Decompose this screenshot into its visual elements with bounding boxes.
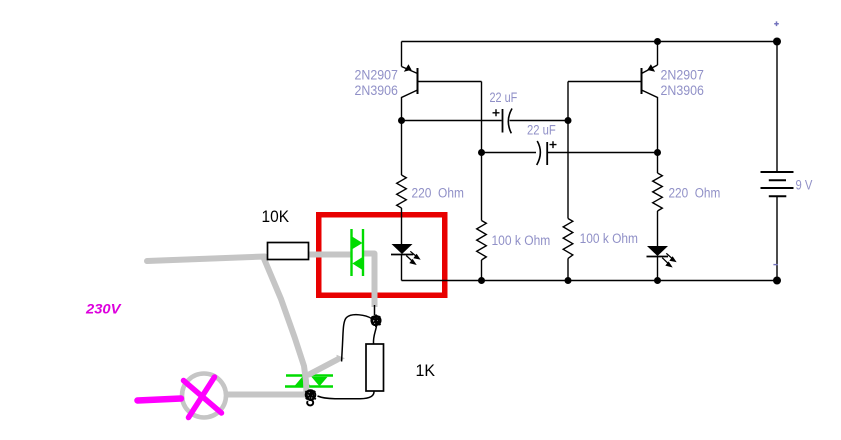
junction knot (hand-drawn) at triac gate [305,390,316,406]
wire: 10K resistor to opto diac (thick grey) [290,252,351,258]
svg-text:220 Ohm: 220 Ohm [669,186,721,201]
transistor Q2 base bar [641,68,643,94]
wire: R3 to bottom rail [481,260,483,281]
opto diac D1 right bar (green) [362,229,364,276]
svg-text:230V: 230V [85,301,122,317]
capacitor C1 plate (curved) [508,109,512,134]
LED1 light arrows [406,251,419,264]
wire: Q1 emitter drop from rail [401,42,403,67]
node: battery -/bottom rail corner [773,277,781,285]
capacitor C2 plate (straight) [546,142,548,165]
wire: C2 left to Q1 base node [482,152,537,154]
opto diac D1 upper triangle (green) [353,237,363,249]
wire: +9V top rail [402,41,778,43]
wire: C1 left plate to Q1 collector node [402,120,502,122]
svg-text:22 uF: 22 uF [490,90,518,105]
svg-text:9 V: 9 V [796,178,813,193]
resistor 1K body (box) [366,344,384,391]
node: Q1 collector junction [398,117,405,124]
node: R4/bottom rail [565,277,572,284]
wire: battery - to bottom rail [776,197,778,281]
wire: grey stub to junction knot (thin black) [374,305,376,315]
triac T1 bottom bar (green) [285,385,333,387]
transistor Q2 emitter [642,65,658,74]
wire: 1K bottom to gate knot (thin black) [318,391,375,399]
capacitor C1 plate (straight) [502,109,504,133]
wire: node down to R3 [481,153,483,221]
svg-text:2N3906: 2N3906 [355,83,398,98]
node: Q2 collector junction [654,149,661,156]
wire: diac out down to gate network (thick grey) [364,254,375,308]
lamp L1 filament X (magenta) [184,377,222,418]
opto diac D1 lower triangle (green) [352,257,362,269]
node: rail/battery + corner [773,38,781,46]
wire: R2 to LED2 [657,211,659,247]
battery BT1 plate long top [761,171,794,173]
opto diac D1 left bar (green) [350,229,352,276]
triac T1 left triangle (green) [295,377,311,387]
node: C1/Q2-base junction [565,117,572,124]
resistor R1 220 Ohm zigzag [397,175,407,208]
wire: R4 to bottom rail [567,259,569,281]
LED1 cathode bar [391,254,413,256]
wire: knot left curving down to triac MT2 (thin black) [342,315,372,362]
wire: C2 right plate to Q2 collector [547,152,657,154]
capacitor C2 plate (curved) [537,141,541,165]
transistor Q1 base bar [417,68,419,94]
transistor Q2 collector [642,90,658,153]
resistor R2 220 Ohm zigzag [653,173,663,211]
svg-text:22 uF: 22 uF [527,123,556,138]
wire: Q2 base vertical line [567,82,569,219]
label: battery + polarity [774,21,779,26]
transistor Q1 collector [402,90,418,121]
battery BT1 plate short bottom [769,195,787,197]
wire: right vertical to battery + [776,42,778,172]
triac T1 top bar (green) [286,374,333,376]
node: rail/Q2 emitter junction [654,38,661,45]
wire: 230V live (thick magenta) [138,399,182,401]
wire: LED2 cathode to bottom rail [657,257,659,281]
capacitor C2 plus sign [550,141,557,148]
wire: Q1 base line down to C2/R3 [481,82,483,153]
svg-text:2N2907: 2N2907 [355,68,398,83]
node: Q1-base/C2 junction [478,149,485,156]
svg-text:2N3906: 2N3906 [661,83,704,98]
wire: Q2 emitter drop from rail [657,42,659,66]
lamp L1 (grey circle) [182,374,226,418]
wire: Q1 base to cross-coupling [418,81,482,83]
node: LED2/bottom rail [654,277,661,284]
wire: knot to 1K resistor top (thin black) [373,326,376,344]
triac T1 right triangle (green) [312,377,328,386]
LED1 (left) triangle [392,244,413,254]
node: R3/bottom rail [478,277,485,284]
wire: R1 to LED1 [401,208,403,245]
transistor Q1 emitter [402,67,418,74]
svg-text:2N2907: 2N2907 [661,68,704,83]
svg-text:220 Ohm: 220 Ohm [412,185,464,200]
junction knot (hand-drawn) near diac output [371,315,381,328]
wire: lamp to triac (thick grey) [228,392,308,398]
svg-text:100 k Ohm: 100 k Ohm [492,233,551,248]
resistor 10K body (box) [268,243,309,260]
battery BT1 plate long [761,187,794,189]
transistor Q1 emitter arrow (PNP) [404,64,412,72]
svg-text:100 k Ohm: 100 k Ohm [580,231,638,246]
wire: diagonal from 10K node down through triac to gate knot (thick grey) [264,258,307,395]
wire: pointed end of MT2 stub (grey) [337,355,346,363]
wire: 230V feed (thick grey) to 10K resistor [147,257,265,262]
wire: LED1 cathode to bottom rail [401,255,403,281]
label: battery - polarity [773,264,777,266]
resistor R4 100 k Ohm zigzag [563,219,573,259]
LED2 light arrows [662,253,675,266]
LED2 cathode bar [647,256,669,258]
wire: Q2 base to cross-coupling [568,81,642,83]
resistor R3 100 k Ohm zigzag [477,221,487,261]
highlight box (red) around optocoupler region [319,215,445,296]
wire: Q1 collector node down to R1 [401,121,403,176]
LED2 (right) triangle [647,246,668,256]
transistor Q2 emitter arrow (PNP) [647,64,655,72]
svg-text:1K: 1K [416,362,436,380]
wire: C1 right plate to Q2 base line [510,120,569,122]
wire: triac MT2 stub up-right (thick grey) [309,360,338,375]
capacitor C1 plus sign [493,109,500,116]
battery BT1 plate short [769,179,786,181]
svg-text:10K: 10K [262,207,290,226]
wire: ground/bottom rail [402,280,778,282]
wire: Q2 collector node to R2 [657,153,659,174]
